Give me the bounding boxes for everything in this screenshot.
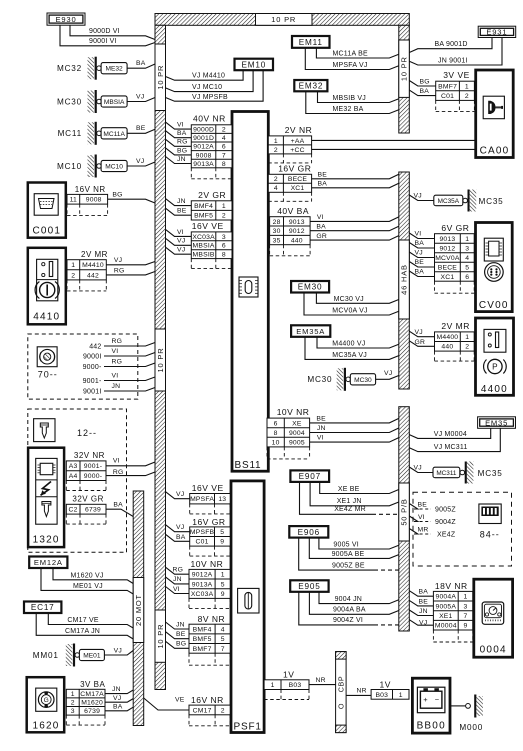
svg-text:−: − xyxy=(435,695,440,704)
svg-text:1: 1 xyxy=(464,594,468,601)
wire M1620 VJ xyxy=(53,568,133,584)
component 1320 xyxy=(28,448,64,547)
svg-text:VJ: VJ xyxy=(113,695,121,702)
wire B03 NR (CBP-BB00) xyxy=(346,688,371,696)
bus bar 50 P/B xyxy=(399,407,410,631)
wire M1620 VJ (1620) xyxy=(105,695,133,702)
ground MC35 (upper) xyxy=(434,190,504,212)
svg-text:VJ: VJ xyxy=(136,158,144,165)
svg-text:9: 9 xyxy=(221,591,225,598)
svg-text:9012: 9012 xyxy=(289,228,305,235)
svg-text:VI: VI xyxy=(112,348,119,355)
svg-text:9005Z: 9005Z xyxy=(435,507,456,514)
svg-text:MC35A VJ: MC35A VJ xyxy=(332,352,367,359)
svg-text:9: 9 xyxy=(220,539,224,546)
component 0004 xyxy=(474,579,513,657)
table 16V VE (PSF1) xyxy=(190,483,231,514)
svg-text:1320: 1320 xyxy=(33,535,60,546)
svg-text:5: 5 xyxy=(221,636,225,643)
svg-text:BMF7: BMF7 xyxy=(193,646,212,653)
wire M4400 VJ (bus) xyxy=(409,329,434,337)
wire MC10 VJ (EM10) xyxy=(166,70,254,91)
svg-text:+CC: +CC xyxy=(290,147,304,154)
svg-text:MCV0A: MCV0A xyxy=(435,255,460,262)
wire MC35A VJ (EM35A) xyxy=(305,337,399,360)
svg-text:GR: GR xyxy=(316,233,327,240)
svg-text:4: 4 xyxy=(274,185,278,192)
wire 9004A BA xyxy=(409,588,433,596)
svg-text:10V NR: 10V NR xyxy=(277,407,310,417)
svg-text:VJ: VJ xyxy=(114,648,122,655)
svg-text:1: 1 xyxy=(465,334,469,341)
svg-text:BA: BA xyxy=(415,240,425,247)
svg-text:JN 9001I: JN 9001I xyxy=(438,57,468,64)
svg-text:RG: RG xyxy=(112,338,123,345)
svg-text:32V NR: 32V NR xyxy=(74,451,105,460)
svg-text:EM35: EM35 xyxy=(485,418,508,427)
svg-text:0004: 0004 xyxy=(480,645,507,656)
svg-text:46 HAB: 46 HAB xyxy=(400,264,409,295)
svg-text:3: 3 xyxy=(71,708,75,715)
svg-text:MC35: MC35 xyxy=(479,197,504,206)
table 10V NR (PSF1 left) xyxy=(189,559,230,609)
svg-text:9004: 9004 xyxy=(289,430,305,437)
bus bar 46 HAB xyxy=(399,172,410,389)
svg-text:M1620: M1620 xyxy=(81,700,103,707)
svg-text:JN: JN xyxy=(177,198,186,205)
component 4410 xyxy=(28,248,66,324)
table 3V BA (1620 pins) xyxy=(66,680,105,725)
svg-text:12--: 12-- xyxy=(77,428,97,438)
connector EM11 xyxy=(292,36,330,48)
svg-text:2: 2 xyxy=(71,700,75,707)
svg-text:C01: C01 xyxy=(196,539,209,546)
wire 9001I JN (E931) xyxy=(409,38,502,66)
svg-text:9001I: 9001I xyxy=(83,388,102,395)
svg-text:VI: VI xyxy=(317,435,324,442)
svg-text:BE: BE xyxy=(318,171,328,178)
svg-text:8V NR: 8V NR xyxy=(198,614,226,624)
wire BMF5 BE (PSF1) xyxy=(166,631,190,639)
svg-text:2V NR: 2V NR xyxy=(285,125,313,135)
wire 9005Z BE (E906) xyxy=(299,538,399,570)
svg-text:O: O xyxy=(336,703,345,709)
ground M000 xyxy=(459,695,483,733)
svg-text:A3: A3 xyxy=(69,463,78,470)
wire XE1 JN (E907) xyxy=(310,482,399,506)
svg-text:VJ MC10: VJ MC10 xyxy=(192,84,222,91)
svg-text:6: 6 xyxy=(222,243,226,250)
wire BB00 to M000 xyxy=(450,705,465,707)
wire 6V GR row 1 VI xyxy=(409,231,434,239)
svg-text:BE: BE xyxy=(316,415,326,422)
svg-text:BS11: BS11 xyxy=(235,460,262,471)
connector E906 xyxy=(289,526,328,538)
svg-text:JN: JN xyxy=(317,425,326,432)
wire BMF7 BG (PSF1) xyxy=(166,641,190,649)
connector E931 xyxy=(478,26,516,37)
svg-text:7: 7 xyxy=(222,152,226,159)
wire XC03A VI xyxy=(166,229,192,237)
svg-text:16V GR: 16V GR xyxy=(278,163,311,173)
wire MPSFA VJ (EM11) xyxy=(305,48,399,70)
svg-text:2: 2 xyxy=(465,93,469,100)
svg-text:VJ MC311: VJ MC311 xyxy=(434,444,468,451)
svg-text:4: 4 xyxy=(221,627,225,634)
wire XC03A VI xyxy=(166,586,190,594)
svg-text:9008: 9008 xyxy=(86,197,102,204)
wire +CC to CA00 xyxy=(312,148,476,150)
wire 9000- RG xyxy=(83,359,155,371)
table 2V GR (BS11) xyxy=(191,190,232,220)
svg-text:CM17 VE: CM17 VE xyxy=(67,617,98,624)
svg-text:VJ: VJ xyxy=(415,329,423,336)
svg-text:9004 JN: 9004 JN xyxy=(335,596,362,603)
svg-text:BMF7: BMF7 xyxy=(438,83,457,90)
svg-text:XE: XE xyxy=(292,420,302,427)
svg-text:MC35A: MC35A xyxy=(438,198,460,205)
svg-text:EM32: EM32 xyxy=(299,82,324,91)
component 12-- (dashed) xyxy=(28,409,127,552)
svg-text:9004A BA: 9004A BA xyxy=(333,607,366,614)
wire MC311 VJ (EM35) xyxy=(409,428,500,451)
wire BMF4 JN (PSF1) xyxy=(166,621,190,629)
svg-text:1: 1 xyxy=(271,682,275,689)
wire ME32 BA xyxy=(127,60,155,68)
svg-text:VI: VI xyxy=(415,231,422,238)
svg-text:BMF4: BMF4 xyxy=(193,627,212,634)
svg-text:RG: RG xyxy=(113,469,124,476)
svg-text:1: 1 xyxy=(222,203,226,210)
svg-text:10 PR: 10 PR xyxy=(156,348,165,373)
svg-text:9004Z VI: 9004Z VI xyxy=(333,617,363,624)
bus bar 10 PR left vertical xyxy=(155,25,166,689)
svg-text:BG: BG xyxy=(420,79,430,86)
table 2V NR (BS11 right) xyxy=(268,125,312,163)
svg-text:9013: 9013 xyxy=(289,219,305,226)
svg-text:CM17A: CM17A xyxy=(80,691,104,698)
svg-text:1: 1 xyxy=(399,692,403,699)
svg-text:8: 8 xyxy=(274,430,278,437)
table 8V NR (PSF1) xyxy=(189,614,230,665)
wire MC10 VJ xyxy=(127,158,155,166)
svg-text:1: 1 xyxy=(71,262,75,269)
wire 6V GR row 4 BE xyxy=(409,259,434,267)
component BB00 xyxy=(412,678,450,733)
svg-text:E931: E931 xyxy=(486,28,507,37)
wire B03 NR (PSF1-CBP) xyxy=(309,677,336,685)
wire 9005A BE (E906) xyxy=(309,538,399,559)
svg-text:9013: 9013 xyxy=(439,236,455,243)
svg-text:2: 2 xyxy=(221,707,225,714)
svg-text:CM17: CM17 xyxy=(193,707,212,714)
wire BMF5 BE xyxy=(166,208,192,216)
svg-text:ME01 VJ: ME01 VJ xyxy=(73,583,103,590)
svg-text:+: + xyxy=(423,695,428,704)
component 4400 xyxy=(476,318,514,395)
wire 9004 JN (E905) xyxy=(319,592,399,604)
svg-text:9013A: 9013A xyxy=(193,161,214,168)
wire MPSFB VJ xyxy=(166,524,190,532)
svg-text:442: 442 xyxy=(89,343,101,350)
wire 9001- VI (A3) xyxy=(106,458,155,466)
connector E905 xyxy=(290,580,328,592)
svg-text:1: 1 xyxy=(465,83,469,90)
wire MC30 VJ (ground) xyxy=(376,370,399,379)
svg-text:16V NR: 16V NR xyxy=(191,695,224,705)
connector EM35A xyxy=(291,325,330,337)
svg-text:10V NR: 10V NR xyxy=(191,559,224,569)
svg-text:E905: E905 xyxy=(298,582,320,591)
svg-text:8: 8 xyxy=(222,252,226,259)
svg-text:9004Z: 9004Z xyxy=(435,519,456,526)
wire 40V NR row 5 JN xyxy=(166,156,192,164)
ground MC30 xyxy=(57,90,127,113)
wire 9012A RG xyxy=(166,567,190,575)
svg-text:ME01: ME01 xyxy=(83,653,101,660)
svg-text:9000I: 9000I xyxy=(83,353,102,360)
svg-text:BA: BA xyxy=(419,588,429,595)
svg-text:MC11A BE: MC11A BE xyxy=(333,50,368,57)
connector EM32 xyxy=(294,80,327,91)
svg-text:MPSFB: MPSFB xyxy=(190,529,215,536)
svg-text:E907: E907 xyxy=(299,472,321,481)
wire 9005Z BE (84) xyxy=(409,501,456,513)
bus bar 10 PR top band xyxy=(155,14,409,26)
component CA00 xyxy=(476,70,514,158)
svg-text:XE4Z: XE4Z xyxy=(437,532,456,539)
svg-text:MC10: MC10 xyxy=(57,162,82,171)
svg-text:RG: RG xyxy=(173,567,184,574)
svg-text:VJ: VJ xyxy=(114,257,122,264)
svg-text:VJ M0004: VJ M0004 xyxy=(434,431,467,438)
wire 9000I VI xyxy=(83,348,155,360)
svg-text:9000-: 9000- xyxy=(83,364,102,371)
svg-text:JN: JN xyxy=(176,621,185,628)
svg-text:BA 9001D: BA 9001D xyxy=(435,41,468,48)
svg-text:VJ: VJ xyxy=(415,250,423,257)
svg-text:7: 7 xyxy=(221,646,225,653)
wire M4410 VJ (EM10) xyxy=(166,70,244,80)
wire MC35A VJ (bus) xyxy=(409,193,434,201)
svg-text:MPSFA VJ: MPSFA VJ xyxy=(333,62,368,69)
svg-text:BB00: BB00 xyxy=(417,721,446,732)
table 40V NR (BS11) xyxy=(191,113,232,179)
component 84-- (dashed) xyxy=(413,492,512,566)
svg-text:M4400 VJ: M4400 VJ xyxy=(332,341,365,348)
svg-text:4: 4 xyxy=(465,255,469,262)
svg-text:MC11A: MC11A xyxy=(103,131,125,138)
svg-text:32V GR: 32V GR xyxy=(72,495,103,504)
wire 6V GR row 5 BA xyxy=(409,269,434,277)
svg-text:VI: VI xyxy=(173,586,180,593)
svg-text:9012A: 9012A xyxy=(193,144,214,151)
svg-text:EM12A: EM12A xyxy=(34,558,63,567)
wire MBSIB VJ xyxy=(166,247,192,255)
svg-text:P: P xyxy=(492,363,498,372)
wire MBSIB VJ (EM32) xyxy=(318,91,399,102)
table 6V GR (CV00) xyxy=(435,223,475,293)
svg-text:XC03A: XC03A xyxy=(191,591,214,598)
wire BMF4 JN xyxy=(166,198,192,206)
svg-text:BMF5: BMF5 xyxy=(194,213,213,220)
svg-text:9013A: 9013A xyxy=(192,581,213,588)
component 70-- (dashed) xyxy=(28,334,138,399)
svg-text:MBSIA: MBSIA xyxy=(193,243,215,250)
bus bar 10 PR right vertical xyxy=(399,25,410,133)
wire 6739 BA (C2) xyxy=(106,502,133,517)
svg-text:VI: VI xyxy=(418,514,425,521)
svg-text:JN: JN xyxy=(419,608,428,615)
table 18V NR (0004) xyxy=(433,581,472,642)
svg-text:3: 3 xyxy=(222,234,226,241)
svg-text:CV00: CV00 xyxy=(479,300,509,311)
svg-text:VJ: VJ xyxy=(176,524,184,531)
svg-text:6739: 6739 xyxy=(85,507,101,514)
wire 40V NR row 2 BA xyxy=(166,130,192,138)
svg-text:13: 13 xyxy=(218,496,226,503)
svg-text:JN: JN xyxy=(177,156,186,163)
svg-text:CM17A JN: CM17A JN xyxy=(65,628,100,635)
wire M4400 VJ (EM35A) xyxy=(317,337,399,348)
wire 6V GR row 3 VJ xyxy=(409,250,434,258)
svg-text:M000: M000 xyxy=(459,723,483,732)
svg-text:M1620 VJ: M1620 VJ xyxy=(71,572,104,579)
svg-text:30: 30 xyxy=(273,228,281,235)
wire 9004Z VI (E905) xyxy=(299,592,399,625)
svg-text:2: 2 xyxy=(465,344,469,351)
svg-text:MC30: MC30 xyxy=(307,375,332,384)
component 1620 xyxy=(27,677,64,732)
svg-text:440: 440 xyxy=(441,344,453,351)
wire XE4Z MR (E907) xyxy=(300,482,399,514)
svg-text:MC30: MC30 xyxy=(354,377,372,384)
svg-text:EM35A: EM35A xyxy=(296,327,325,336)
svg-text:BA: BA xyxy=(415,269,425,276)
wire ME01 VJ (MM01) xyxy=(104,648,133,656)
svg-text:5: 5 xyxy=(221,581,225,588)
svg-text:442: 442 xyxy=(87,272,99,279)
wire 40V NR row 3 RG xyxy=(166,139,192,147)
wire MPSFB VJ (EM10) xyxy=(166,70,264,101)
wire CM17A JN xyxy=(36,613,133,639)
svg-text:BA: BA xyxy=(113,502,123,509)
table 16V NR (C001 pin 11/9008) xyxy=(67,185,108,216)
svg-text:MBSIB VJ: MBSIB VJ xyxy=(333,95,367,102)
ground MC32 xyxy=(57,57,127,80)
wire MPSFA VJ xyxy=(166,491,190,499)
svg-text:MC35: MC35 xyxy=(478,469,503,478)
svg-text:VE: VE xyxy=(175,697,185,704)
svg-text:2: 2 xyxy=(274,147,278,154)
svg-text:9012A: 9012A xyxy=(192,572,213,579)
connector E907 xyxy=(290,470,329,482)
wire 9005 VI (to bus) xyxy=(310,435,399,443)
svg-text:VJ: VJ xyxy=(384,370,392,377)
wire 9008 BG xyxy=(108,192,155,204)
svg-text:NR: NR xyxy=(316,677,326,684)
svg-text:BA: BA xyxy=(318,181,328,188)
svg-text:CA00: CA00 xyxy=(480,146,510,157)
svg-text:MC11: MC11 xyxy=(58,129,82,138)
svg-text:1: 1 xyxy=(274,138,278,145)
wire XE1 JN xyxy=(409,608,433,616)
connector EM10 xyxy=(235,59,274,70)
svg-text:1: 1 xyxy=(465,236,469,243)
svg-text:20 MOT: 20 MOT xyxy=(134,594,143,626)
wire 9000D VI xyxy=(70,25,155,39)
wire M4410 VJ xyxy=(106,257,155,265)
svg-text:GR: GR xyxy=(415,339,426,346)
svg-text:A4: A4 xyxy=(69,473,78,480)
wire 9000I VI xyxy=(60,25,155,46)
svg-text:9012: 9012 xyxy=(439,245,455,252)
svg-text:+AA: +AA xyxy=(291,138,305,145)
svg-text:2: 2 xyxy=(71,272,75,279)
svg-text:11: 11 xyxy=(70,197,77,204)
svg-text:6: 6 xyxy=(274,420,278,427)
svg-text:BG: BG xyxy=(177,147,187,154)
svg-text:BECE: BECE xyxy=(438,264,458,271)
svg-text:9000D VI: 9000D VI xyxy=(89,28,120,35)
svg-text:4: 4 xyxy=(222,135,226,142)
svg-text:MC311: MC311 xyxy=(436,470,457,477)
svg-text:CBP: CBP xyxy=(336,676,345,693)
svg-text:BMF5: BMF5 xyxy=(193,636,212,643)
svg-text:BA: BA xyxy=(176,534,186,541)
wire M0004 VJ xyxy=(409,619,433,626)
svg-text:C2: C2 xyxy=(69,507,78,514)
wire MC11A BE xyxy=(127,125,155,133)
svg-text:BA: BA xyxy=(316,224,326,231)
table 2V MR (4400) xyxy=(435,321,475,361)
svg-text:XC1: XC1 xyxy=(291,185,305,192)
svg-text:XE1: XE1 xyxy=(439,613,452,620)
svg-text:RG: RG xyxy=(177,139,188,146)
connector EM35 xyxy=(478,417,516,429)
svg-text:8: 8 xyxy=(222,161,226,168)
table 32V GR (1320 C2) xyxy=(66,495,106,525)
ECU BS11 xyxy=(232,112,268,472)
svg-text:84--: 84-- xyxy=(480,530,500,540)
svg-text:E906: E906 xyxy=(298,528,320,537)
svg-text:VI: VI xyxy=(317,214,324,221)
svg-text:G: G xyxy=(44,697,49,704)
svg-text:2V MR: 2V MR xyxy=(81,250,108,259)
svg-text:B03: B03 xyxy=(375,692,388,699)
wire 9004A BA (E905) xyxy=(309,592,398,615)
wire MC11A BE (EM11) xyxy=(316,48,398,58)
table 16V GR (BS11 right) xyxy=(268,163,311,201)
component CV00 xyxy=(476,223,513,312)
table 3V VE (CA00) xyxy=(436,70,475,111)
connector EM30 xyxy=(291,281,329,293)
svg-text:E930: E930 xyxy=(56,15,77,24)
wire ME01 VJ (EM12A) xyxy=(41,568,133,594)
wire BECE BE xyxy=(312,171,399,179)
svg-text:40V BA: 40V BA xyxy=(277,206,309,216)
svg-text:VI: VI xyxy=(177,229,184,236)
svg-text:28: 28 xyxy=(273,219,281,226)
table 16V VE (BS11) xyxy=(191,221,232,269)
wire +AA to CA00 xyxy=(312,139,476,141)
svg-text:C01: C01 xyxy=(441,93,454,100)
svg-text:EM11: EM11 xyxy=(299,38,323,47)
svg-text:3: 3 xyxy=(465,245,469,252)
wire 9001D BA (E931) xyxy=(409,38,492,53)
svg-text:JN: JN xyxy=(112,686,121,693)
wire 442 RG xyxy=(106,267,155,275)
